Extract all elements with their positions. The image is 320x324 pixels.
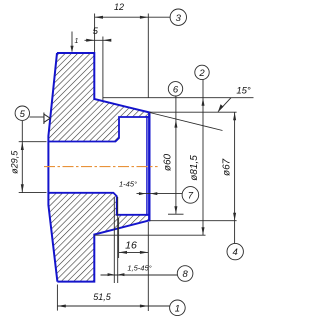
svg-text:12: 12 [114,2,124,12]
svg-text:6: 6 [173,84,179,95]
leader 1.5x45 [101,197,178,283]
ext line hub surface lower [150,220,237,222]
datum flag [44,113,50,125]
callout 5 [15,106,29,120]
svg-text:4: 4 [233,247,238,258]
centerline [44,166,158,168]
tick at dia60 lower arrow [168,213,184,215]
callout 8 [177,266,193,282]
dim 51.5 [57,222,169,311]
ext line hub surface upper [150,111,237,113]
section hatch lower half [48,193,149,282]
part outline upper [57,53,150,113]
svg-text:1-45°: 1-45° [119,180,137,189]
left face [48,53,57,282]
svg-text:15°: 15° [236,86,251,97]
callout 2 [195,65,209,79]
svg-text:1: 1 [175,303,180,314]
callout 4 [227,243,243,259]
svg-text:8: 8 [182,269,188,280]
dim 12 [95,14,171,98]
svg-text:51,5: 51,5 [93,292,112,302]
leader 1x45 [137,192,183,195]
svg-text:5: 5 [93,26,99,37]
svg-text:2: 2 [198,68,205,79]
svg-text:1: 1 [75,38,79,45]
counterbore upper [49,117,150,142]
svg-text:5: 5 [20,109,26,120]
bore lower [49,193,150,215]
callout 1 [170,300,186,316]
svg-text:7: 7 [188,191,194,202]
svg-text:ø67: ø67 [221,158,232,176]
ext line lower 81.5 [94,234,205,236]
dim 16 [119,218,149,258]
svg-text:3: 3 [176,13,182,24]
hub end face [148,112,150,222]
svg-text:ø81,5: ø81,5 [189,155,200,181]
section hatch upper half [48,53,149,142]
callout 6 [168,82,182,96]
svg-text:16: 16 [125,240,137,252]
part outline lower [57,220,149,281]
counterbore chamfer edge [146,116,148,216]
chamfer leader 1 [70,32,73,53]
ext line upper 81.5 / angle leg [103,97,254,99]
leader 5 [30,116,44,118]
dim dia 81.5 [202,80,205,235]
dim 5 [85,37,112,101]
svg-text:ø60: ø60 [163,153,174,171]
dim dia 60 [174,96,177,214]
cone extension upper [150,113,223,131]
dim dia 67 [233,112,236,243]
callout 7 [182,187,199,204]
callout 3 [170,9,186,25]
svg-text:ø29,5: ø29,5 [9,150,19,174]
dim dia 29.5 [19,121,47,193]
angle 15 leader [218,98,231,112]
